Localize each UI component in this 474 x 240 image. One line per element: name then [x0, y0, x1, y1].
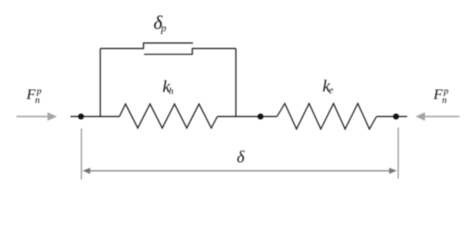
svg-text:n: n: [35, 96, 40, 106]
svg-text:n: n: [442, 96, 447, 106]
label k_e: [323, 77, 334, 97]
label delta_p: [154, 13, 167, 34]
label F_n^p left: [26, 87, 42, 106]
node right: [393, 114, 399, 120]
svg-text:h: h: [169, 87, 174, 97]
wire between k_h and mid node: [217, 116, 277, 118]
svg-text:p: p: [160, 23, 166, 34]
spring k_e: [277, 104, 377, 130]
wire right lead: [377, 116, 408, 118]
dimension line delta (double arrow): [83, 168, 397, 174]
svg-text:δ: δ: [237, 148, 245, 167]
label k_h: [163, 77, 174, 97]
wire right vertical of parallel branch: [235, 49, 237, 117]
force arrow F left (gray, pointing right): [17, 112, 58, 120]
label F_n^p right: [433, 87, 449, 106]
spring k_h: [119, 104, 217, 128]
wire left lead: [71, 116, 120, 118]
dimension extension line right: [397, 128, 399, 179]
node mid: [258, 114, 264, 120]
dimension extension line left: [80, 129, 82, 180]
wire left vertical of parallel branch: [99, 49, 101, 117]
force arrow F right (gray, pointing left): [416, 112, 460, 120]
gap element delta_p (telescoping slider): [100, 43, 236, 54]
node left: [78, 114, 84, 120]
svg-text:e: e: [329, 86, 334, 97]
